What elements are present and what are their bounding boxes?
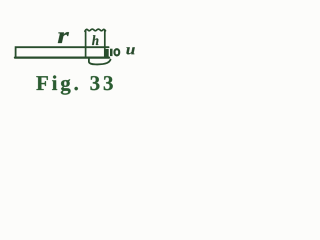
collar stub xyxy=(110,49,113,56)
label h xyxy=(92,35,98,45)
label u xyxy=(126,47,134,54)
caption Fig. 33 xyxy=(36,75,112,94)
sleeve h (block with wavy broken top) xyxy=(85,29,106,57)
ring u (thick-bordered eyelet) xyxy=(115,49,120,55)
bracket hook below rod end xyxy=(89,58,111,64)
rod end cap xyxy=(105,49,109,57)
label r xyxy=(58,32,69,43)
rod r (long horizontal bar) xyxy=(15,47,109,57)
paper background xyxy=(0,0,160,114)
